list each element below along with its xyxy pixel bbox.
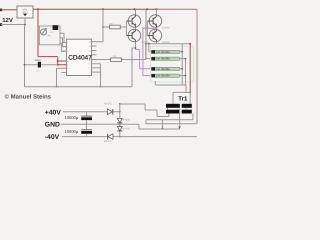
wire into primary top (155, 81, 190, 104)
wire GND rail (61, 124, 180, 129)
trimmer P1 (41, 29, 47, 35)
regulator VR1 gnd tab (23, 14, 27, 16)
wire pins to gnd bus (97, 64, 101, 87)
transformer Tr1 windings (166, 104, 180, 108)
junction (24, 24, 26, 26)
junction (189, 43, 191, 45)
capacitor C1 (53, 25, 59, 30)
svg-text:GND: GND (45, 122, 60, 129)
svg-text:BY255: BY255 (105, 103, 113, 106)
wire gate row4 magenta (143, 28, 157, 75)
wire +12V top rail (33, 8, 157, 10)
wire right edge rail (196, 9, 198, 124)
svg-text:+40V: +40V (45, 110, 62, 117)
wire Q3 collector to rail (156, 9, 158, 14)
wire +40V rail (63, 111, 120, 113)
junction (102, 8, 104, 10)
transistor Q3 (147, 15, 161, 28)
junction (24, 64, 26, 66)
junction (56, 86, 58, 88)
wire Q2 emitter down (135, 42, 137, 50)
wire riser (119, 104, 121, 112)
wire emitter bus (146, 43, 191, 45)
junction (119, 123, 121, 125)
MOSFET module M4 (152, 74, 180, 78)
diode D3 (119, 124, 121, 136)
junction (156, 8, 158, 10)
junction (181, 68, 183, 70)
IC right pins (92, 42, 97, 72)
svg-text:10000µ: 10000µ (65, 115, 79, 120)
wire Q1-Q2 mid (135, 27, 137, 29)
wire winding links (168, 108, 187, 110)
svg-text:LM 150/35A: LM 150/35A (156, 68, 170, 71)
12V terminal + (0, 9, 2, 12)
wire VCC drop to osc (37, 9, 39, 56)
junction (134, 8, 136, 10)
pin numbers (67, 41, 91, 75)
regulator VR1 box (17, 6, 33, 18)
wire drain red drop (189, 44, 191, 93)
svg-text:BD249: BD249 (162, 26, 170, 29)
wire pin14 to rail (97, 9, 104, 42)
wire pin10 drive A (97, 59, 147, 61)
svg-text:BY255: BY255 (123, 119, 131, 122)
junction (119, 136, 121, 138)
junction (135, 47, 137, 49)
wire ground left rail (24, 25, 26, 87)
transistor Q2 (126, 29, 140, 42)
capacitor C4 10000u (86, 124, 88, 130)
junction (119, 103, 121, 105)
wire to ground rail (57, 68, 67, 86)
junction (162, 128, 164, 130)
junction (37, 8, 39, 10)
junction (185, 75, 187, 77)
junction (100, 86, 102, 88)
wire secondary staircase (120, 104, 169, 117)
wire Q4 emitter down (156, 42, 158, 44)
svg-text:BY255: BY255 (123, 128, 131, 131)
wire rows 2+4 bus (180, 59, 186, 85)
junction (146, 8, 148, 10)
wire VCC to pin5 (38, 57, 58, 65)
wire ground bottom rail (25, 86, 133, 88)
wire drive A riser (146, 9, 147, 59)
12V terminal - (0, 23, 2, 26)
capacitor C3 10000u (86, 112, 88, 116)
junction (145, 43, 147, 45)
wire bases bus right pair (146, 21, 148, 36)
wire timing to pin3 (60, 44, 67, 52)
MOSFET module M3 (152, 67, 180, 71)
svg-text:-40V: -40V (45, 134, 60, 141)
svg-text:Tr1: Tr1 (178, 96, 188, 103)
svg-text:12V: 12V (2, 17, 13, 24)
svg-text:BY255: BY255 (104, 140, 112, 143)
junction (57, 64, 59, 66)
wire VR1 gnd (24, 18, 26, 25)
junction (185, 58, 187, 60)
wire VCC link (58, 61, 67, 65)
svg-text:LM 150/35A: LM 150/35A (156, 75, 170, 78)
IC left pins (62, 43, 67, 73)
junction (189, 92, 191, 94)
diode D2 (119, 112, 121, 124)
wire row1 feed (149, 44, 152, 52)
wire 12V- ground (1, 24, 25, 26)
wire center tap (179, 109, 181, 126)
wire rows 1+3 bus (180, 44, 183, 85)
module group outline (151, 47, 194, 83)
wire timing to pin1 (60, 33, 67, 42)
junction (102, 26, 104, 28)
junction (148, 43, 150, 45)
wire gate row3 magenta (136, 50, 152, 69)
junction (119, 111, 121, 113)
wire ground return up (132, 48, 136, 87)
transistor Q4 (147, 29, 161, 42)
wire -40V rail (62, 136, 197, 138)
wire bases bus left pair (125, 21, 127, 36)
MOSFET module M1 (152, 50, 180, 54)
wire pin13 drive B (103, 26, 126, 28)
svg-text:10000µ: 10000µ (65, 129, 79, 134)
svg-text:LM 150/35A: LM 150/35A (156, 51, 170, 54)
junction (181, 51, 183, 53)
svg-text:© Manuel Steins: © Manuel Steins (5, 94, 52, 101)
wire link (162, 120, 164, 129)
capacitor C2 100n (25, 64, 58, 66)
wire Q1 collector to rail (135, 9, 137, 14)
timing network box (39, 26, 60, 45)
wire 12V+ to VR1 in (1, 9, 17, 11)
resistor R2 (110, 25, 121, 29)
svg-text:100n: 100n (35, 59, 41, 62)
MOSFET module M2 (152, 57, 180, 61)
wire row2 feed (146, 44, 152, 59)
wire Q3-Q4 mid (156, 27, 158, 29)
transistor Q1 (126, 15, 140, 28)
diode D4 (108, 134, 113, 140)
junction (57, 60, 59, 62)
diode D1 (107, 109, 112, 115)
wire primary bottom loop (146, 114, 197, 124)
wire timing to pin2 (60, 38, 67, 47)
resistor R3 (111, 58, 122, 62)
svg-text:LM 150/35A: LM 150/35A (156, 58, 170, 61)
IC U1 CD4047 box (67, 39, 92, 75)
